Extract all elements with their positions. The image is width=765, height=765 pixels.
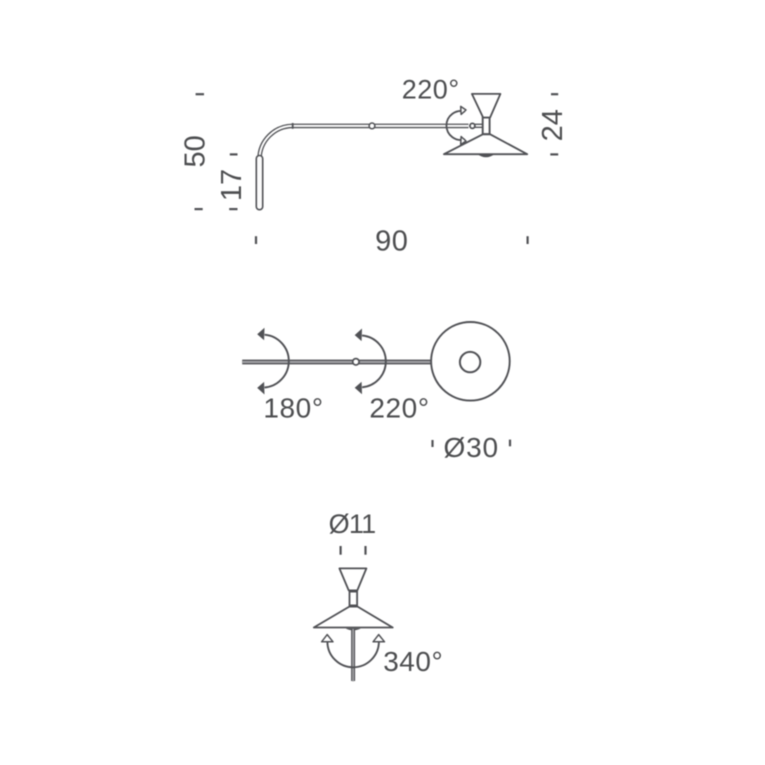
svg-text:50: 50 [179, 135, 211, 167]
svg-text:17: 17 [216, 169, 248, 201]
svg-text:340°: 340° [383, 646, 443, 677]
svg-text:Ø11: Ø11 [329, 509, 376, 539]
svg-text:90: 90 [375, 226, 408, 258]
svg-text:24: 24 [537, 109, 569, 141]
svg-text:180°: 180° [263, 392, 323, 423]
svg-text:220°: 220° [369, 392, 429, 423]
svg-text:220°: 220° [402, 74, 460, 104]
svg-text:Ø30: Ø30 [444, 432, 499, 463]
